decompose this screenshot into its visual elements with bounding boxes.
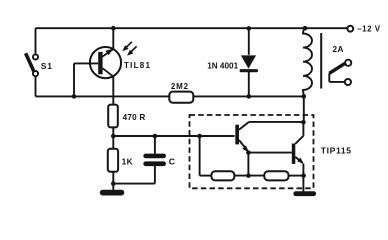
- wire S1 bottom lead: [35, 76, 37, 96]
- wire top rail: [36, 27, 348, 29]
- node bottom row: [246, 173, 251, 178]
- wire Q1 emitter down: [247, 153, 249, 176]
- wire box-left vertical: [199, 136, 201, 176]
- resistor Ra: [211, 171, 234, 180]
- resistor 1K: [108, 149, 118, 172]
- transistor Q2: [292, 136, 304, 164]
- node diode top: [247, 26, 252, 31]
- resistor 470R: [108, 105, 118, 128]
- ground left: [100, 190, 125, 196]
- ground right: [293, 191, 316, 196]
- node diode bottom: [247, 94, 252, 99]
- wire TIL81 emitter to rail: [112, 28, 114, 49]
- wire 470R to junction: [112, 127, 114, 148]
- svg-text:2A: 2A: [333, 45, 344, 54]
- svg-text:470 R: 470 R: [123, 113, 146, 122]
- wire Q2 collector up: [302, 122, 304, 136]
- wire base tap vertical: [73, 63, 75, 96]
- node collector inside box: [301, 120, 306, 125]
- wire 2M2 to relay node: [193, 95, 303, 97]
- wire TIL81 collector down: [112, 76, 114, 104]
- wire junction to box: [113, 135, 234, 137]
- wire cap bottom horizontal: [113, 183, 155, 185]
- svg-text:S1: S1: [41, 61, 53, 71]
- switch S1: [26, 53, 39, 76]
- wire Q2 emitter down to ground: [302, 164, 304, 192]
- wire S1 top lead: [35, 28, 37, 54]
- node emitter-resistor junction: [301, 173, 306, 178]
- capacitor C: [143, 136, 166, 184]
- resistor 2M2: [169, 92, 193, 103]
- svg-text:–12 V: –12 V: [357, 25, 381, 34]
- svg-text:C: C: [169, 156, 175, 166]
- wire Q1 emitter to Q2 base: [248, 152, 291, 154]
- node box entry: [197, 134, 202, 139]
- node Q1 emitter: [246, 150, 251, 155]
- node 470R-1K junction: [111, 134, 116, 139]
- wire relay node down to box: [303, 96, 305, 122]
- node emitter-rail: [111, 26, 116, 31]
- dashed box TIP115: [190, 115, 314, 188]
- phototransistor TIL81: [90, 47, 121, 78]
- wire base horizontal: [74, 62, 98, 64]
- node relay bottom: [302, 94, 307, 99]
- node relay top: [303, 26, 308, 31]
- relay coil: [303, 28, 321, 96]
- light arrow 1: [122, 42, 132, 51]
- terminal -12V: [347, 26, 353, 32]
- svg-text:1K: 1K: [122, 157, 134, 167]
- node cap top: [153, 134, 158, 139]
- diode 1N4001: [240, 28, 258, 96]
- wire bottom row left: [200, 175, 212, 177]
- light arrow 2: [127, 46, 137, 55]
- resistor Rb: [264, 171, 288, 180]
- wire 1K bottom: [112, 172, 114, 190]
- svg-text:TIP115: TIP115: [321, 145, 352, 155]
- relay contact 2A: [329, 60, 351, 85]
- wire bottom-left rail: [36, 95, 170, 97]
- transistor Q1: [235, 122, 249, 152]
- wire bottom row mid: [234, 175, 264, 177]
- svg-text:1N 4001: 1N 4001: [207, 61, 238, 70]
- svg-text:2M2: 2M2: [171, 82, 189, 91]
- wire Q1 collector: [249, 121, 303, 123]
- wire bottom row right: [289, 175, 304, 177]
- node base tap: [72, 94, 77, 99]
- svg-text:TIL81: TIL81: [124, 61, 151, 70]
- node cap-bottom junction: [111, 181, 116, 186]
